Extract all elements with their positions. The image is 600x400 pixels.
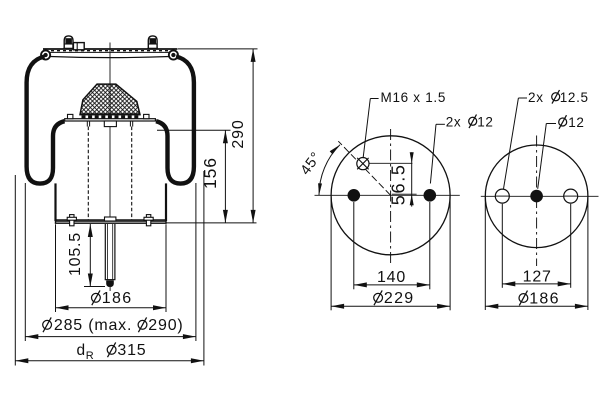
wire extension line right d_R 315	[203, 171, 205, 366]
wire extension line stud bottom (105.5 ref)	[84, 286, 105, 288]
right view horizontal centre line	[481, 195, 599, 197]
top-view horizontal centre line	[315, 194, 460, 196]
dimension 156 top arrow	[223, 130, 228, 143]
45 degree arc with arrows	[319, 145, 340, 196]
dimension dR315 line	[15, 360, 204, 362]
dimension dia285 line	[25, 336, 196, 338]
dimension dR315 symbol	[107, 345, 116, 354]
left bead of top plate	[40, 50, 51, 61]
svg-text:290): 290)	[148, 317, 183, 334]
dimension 127 arrows	[502, 281, 515, 286]
piston wall right hidden	[131, 127, 133, 220]
label 2x dia12.5 symbol	[552, 93, 560, 101]
svg-text:R: R	[86, 350, 95, 362]
svg-text:290: 290	[230, 119, 247, 148]
label 2x dia12 symbol	[469, 117, 477, 125]
flange clamp bolt right	[146, 215, 150, 226]
right view vertical centre line	[536, 136, 538, 267]
piston top plate	[65, 119, 156, 121]
svg-text:285 (max.: 285 (max.	[54, 317, 132, 334]
piston plate left tick	[68, 114, 73, 118]
dimension 156 line	[224, 130, 226, 223]
dimension dia229 arrows	[331, 304, 344, 309]
leader line dia12 centre	[546, 123, 556, 125]
svg-text:315: 315	[117, 342, 146, 359]
dimension 127 ext lines	[501, 204, 503, 288]
dimension dia186 right arrows	[485, 304, 498, 309]
dimension 140 ext lines	[353, 202, 355, 289]
leader line M16	[370, 98, 378, 100]
bellows top edge under plate	[50, 57, 170, 58]
svg-text:186: 186	[529, 290, 560, 307]
dimension 290 bottom arrow	[251, 210, 256, 223]
svg-text:140: 140	[377, 269, 406, 286]
piston hub below plate	[104, 121, 116, 127]
bolt hole right (filled)	[424, 189, 437, 202]
wire extension line left d_R 315	[14, 175, 16, 366]
dimension 56.5 line	[411, 152, 413, 206]
dimension dia186 right line	[485, 305, 588, 307]
svg-text:12.5: 12.5	[560, 90, 589, 105]
dimension 56.5 ref line top	[369, 162, 412, 164]
dimension 290 line	[252, 49, 254, 223]
dimension 105.5 top arrow	[88, 224, 93, 237]
dimension dia229 ext lines	[330, 197, 332, 311]
wire extension line right dia285	[195, 183, 197, 341]
right centre hole (filled)	[530, 190, 543, 203]
piston skirt right edge	[165, 183, 167, 221]
piston bottom flange	[56, 219, 167, 221]
wire extension line top (290 ref)	[178, 48, 258, 50]
air fitting bolt left	[64, 36, 73, 49]
dimension 290 top arrow	[251, 49, 256, 62]
label dia12 symbol	[559, 118, 567, 126]
dimension dia285 symbol 2	[138, 320, 147, 329]
flange clamp bolt left	[70, 215, 74, 226]
M16 air port hole	[357, 158, 369, 170]
dimension dia186 right ext lines	[484, 198, 486, 311]
dimension dia186 arrows	[56, 305, 69, 310]
top-view vertical centre line	[390, 129, 392, 263]
svg-text:d: d	[77, 342, 86, 359]
top-view flange circle	[331, 136, 450, 255]
svg-text:12: 12	[568, 115, 584, 130]
piston plate right tick	[144, 114, 149, 118]
svg-text:229: 229	[384, 290, 415, 307]
centre stud head	[105, 217, 116, 221]
dimension 105.5 bottom arrow	[88, 274, 93, 287]
svg-text:2x: 2x	[446, 114, 462, 129]
leader line 2x dia12.5	[518, 97, 527, 99]
wire centre line of side view	[109, 43, 111, 220]
piston wall right solid top	[129, 121, 131, 127]
dimension 127 line	[502, 283, 570, 285]
right hole left (open)	[495, 189, 509, 203]
svg-text:M16 x 1.5: M16 x 1.5	[381, 90, 447, 105]
dimension 140 arrows	[354, 282, 367, 287]
svg-text:186: 186	[102, 290, 133, 307]
dimension dia186 symbol	[92, 293, 101, 302]
right hole right (open)	[564, 189, 578, 203]
piston wall left solid top	[86, 121, 88, 127]
centre stud shaft	[104, 224, 106, 280]
45 degree reference line (dashed)	[338, 141, 390, 195]
svg-text:127: 127	[523, 268, 552, 285]
dimension 105.5 line	[89, 224, 91, 287]
dimension dia186 right symbol	[519, 294, 528, 303]
svg-text:156: 156	[200, 157, 220, 189]
dimension 56.5 ref line bottom	[392, 193, 417, 195]
wire extension line at piston top plate (156 ref)	[157, 129, 231, 131]
wire extension line at flange plane (290/156 ref)	[167, 222, 257, 224]
svg-text:2x: 2x	[528, 90, 544, 105]
right view flange circle	[485, 145, 588, 248]
svg-text:105.5: 105.5	[67, 232, 84, 276]
bolt hole left (filled)	[348, 189, 361, 202]
wire extension line left dia186	[55, 224, 57, 312]
bellows rubber left contour	[27, 57, 65, 184]
dimension dia186 line	[56, 307, 167, 309]
svg-text:12: 12	[477, 114, 493, 129]
dimension 156 bottom arrow	[223, 210, 228, 223]
leader line 2x dia12	[436, 123, 445, 125]
wire extension line right dia186	[165, 224, 167, 312]
rubber bumper cone (cross-hatched)	[80, 84, 140, 115]
piston wall left hidden	[87, 127, 89, 220]
air fitting bolt right	[148, 36, 157, 49]
dimension 140 line	[354, 284, 430, 286]
elbow fitting on left bolt	[73, 43, 84, 50]
dimension dR315 arrows	[15, 358, 28, 363]
piston skirt left edge	[54, 183, 56, 221]
dimension dia229 symbol	[374, 293, 383, 302]
dimension 56.5 arrow top	[410, 152, 414, 163]
wire extension line left dia285	[24, 183, 26, 341]
dimension 56.5 arrow bottom	[410, 194, 414, 205]
svg-text:56.5: 56.5	[388, 163, 408, 205]
dimension dia229 line	[331, 305, 450, 307]
top plate of air spring	[43, 48, 178, 50]
dimension dia285 arrows	[25, 334, 38, 339]
dimension dia285 symbol 1	[43, 320, 52, 329]
bumper base plate dark band	[80, 113, 140, 115]
bellows rubber right contour	[156, 57, 194, 184]
right bead of top plate	[168, 50, 179, 61]
